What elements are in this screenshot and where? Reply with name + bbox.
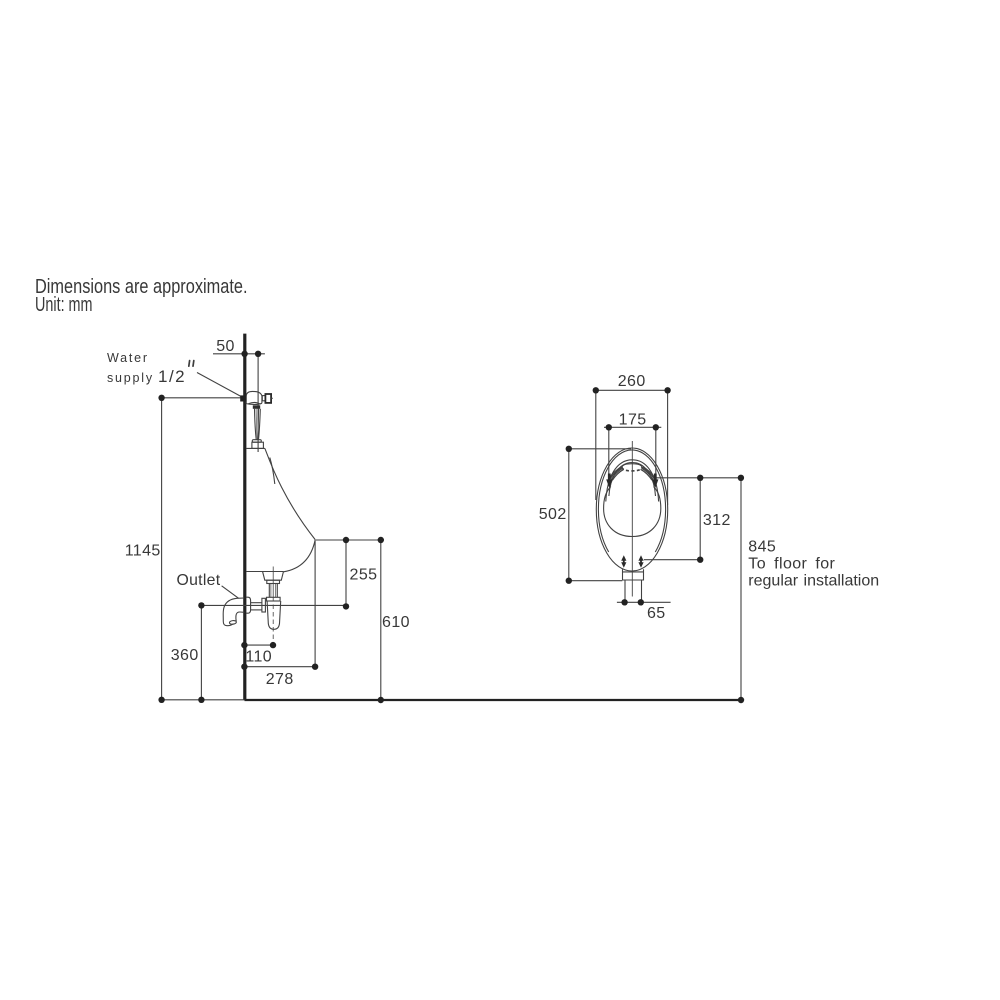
svg-text:175: 175 [619,412,647,429]
svg-text:Water: Water [107,351,149,365]
svg-text:50: 50 [216,338,235,355]
svg-text:278: 278 [266,671,294,688]
svg-text:To floor for: To floor for [748,555,835,572]
svg-text:110: 110 [245,649,272,666]
svg-text:360: 360 [171,647,199,664]
svg-text:65: 65 [647,605,666,622]
svg-text:502: 502 [539,506,567,523]
svg-text:312: 312 [703,512,731,529]
svg-text:1/2: 1/2 [158,367,186,386]
svg-text:845: 845 [748,539,776,556]
svg-text:Unit: mm: Unit: mm [35,293,93,316]
svg-text:1145: 1145 [125,543,161,560]
svg-text:regular installation: regular installation [748,572,879,589]
svg-text:Outlet: Outlet [177,572,221,589]
svg-text:260: 260 [618,373,646,390]
svg-text:supply: supply [107,371,154,385]
svg-text:610: 610 [382,614,410,631]
svg-text:255: 255 [350,567,378,584]
